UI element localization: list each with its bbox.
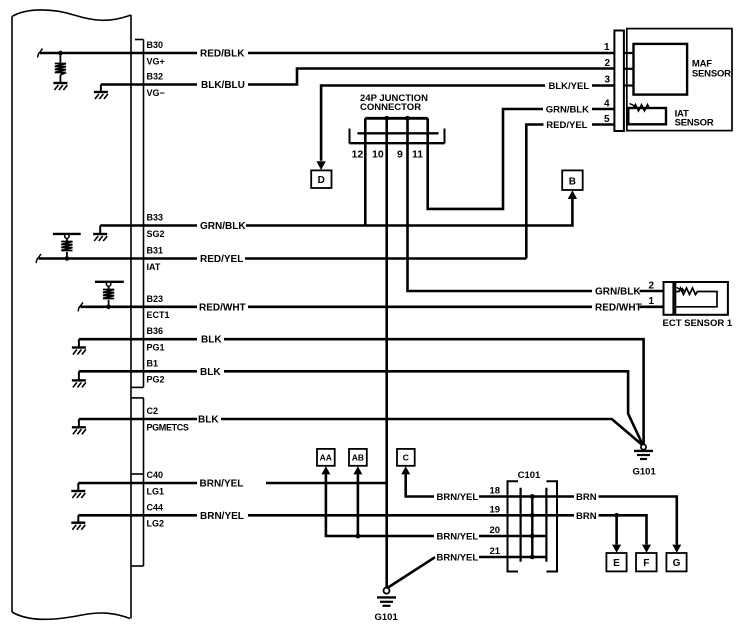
svg-text:PG2: PG2 — [147, 375, 165, 385]
svg-text:LG2: LG2 — [147, 519, 165, 529]
svg-text:RED/YEL: RED/YEL — [200, 254, 243, 265]
svg-text:CONNECTOR: CONNECTOR — [360, 102, 421, 113]
svg-text:RED/BLK: RED/BLK — [200, 49, 245, 60]
svg-text:C2: C2 — [147, 406, 159, 416]
svg-text:SENSOR: SENSOR — [692, 68, 731, 79]
svg-text:18: 18 — [490, 486, 501, 497]
svg-text:10: 10 — [372, 148, 384, 160]
svg-text:BLK/BLU: BLK/BLU — [201, 80, 245, 91]
svg-text:G: G — [673, 558, 681, 569]
svg-text:AA: AA — [320, 453, 332, 463]
svg-text:BRN/YEL: BRN/YEL — [437, 492, 479, 503]
svg-text:E: E — [613, 558, 620, 569]
svg-text:BLK: BLK — [201, 335, 222, 346]
svg-text:B30: B30 — [147, 40, 164, 50]
svg-text:SENSOR: SENSOR — [675, 117, 714, 128]
svg-text:3: 3 — [605, 75, 611, 86]
svg-text:B33: B33 — [147, 213, 164, 223]
svg-text:SG2: SG2 — [147, 229, 165, 239]
svg-text:19: 19 — [490, 505, 501, 516]
svg-text:G101: G101 — [375, 612, 399, 623]
svg-text:BLK: BLK — [198, 415, 219, 426]
svg-text:BLK: BLK — [200, 367, 221, 378]
svg-text:BLK/YEL: BLK/YEL — [549, 81, 590, 92]
svg-text:B1: B1 — [147, 358, 159, 368]
svg-text:GRN/BLK: GRN/BLK — [595, 287, 641, 298]
svg-text:D: D — [318, 175, 325, 186]
svg-text:G101: G101 — [633, 467, 657, 478]
svg-text:C101: C101 — [518, 470, 541, 481]
svg-text:2: 2 — [605, 58, 611, 69]
svg-text:GRN/BLK: GRN/BLK — [200, 221, 246, 232]
svg-text:IAT: IAT — [147, 262, 161, 272]
svg-text:9: 9 — [397, 148, 403, 160]
svg-text:1: 1 — [649, 296, 655, 307]
svg-text:BRN/YEL: BRN/YEL — [200, 479, 244, 490]
svg-text:F: F — [643, 558, 649, 569]
svg-text:BRN/YEL: BRN/YEL — [437, 553, 479, 564]
svg-text:C: C — [403, 453, 409, 463]
svg-text:PGMETCS: PGMETCS — [147, 422, 189, 432]
svg-text:B31: B31 — [147, 246, 164, 256]
svg-text:B36: B36 — [147, 326, 164, 336]
svg-text:BRN: BRN — [576, 492, 597, 503]
svg-text:B: B — [569, 177, 576, 188]
svg-text:GRN/BLK: GRN/BLK — [546, 104, 589, 115]
svg-text:PG1: PG1 — [147, 343, 165, 353]
svg-text:20: 20 — [490, 525, 501, 536]
svg-text:4: 4 — [604, 99, 610, 110]
svg-text:RED/YEL: RED/YEL — [546, 120, 587, 131]
svg-text:11: 11 — [412, 148, 423, 160]
svg-text:21: 21 — [490, 546, 501, 557]
svg-text:VG−: VG− — [147, 88, 165, 98]
svg-text:1: 1 — [604, 42, 610, 53]
svg-text:LG1: LG1 — [147, 486, 165, 496]
svg-text:B23: B23 — [147, 294, 164, 304]
svg-text:C44: C44 — [147, 502, 164, 512]
svg-text:RED/WHT: RED/WHT — [199, 302, 246, 313]
svg-text:RED/WHT: RED/WHT — [595, 302, 642, 313]
svg-text:BRN/YEL: BRN/YEL — [200, 511, 244, 522]
svg-text:5: 5 — [604, 114, 610, 125]
svg-text:BRN: BRN — [576, 511, 597, 522]
svg-text:2: 2 — [649, 280, 655, 291]
svg-text:ECT SENSOR 1: ECT SENSOR 1 — [663, 318, 733, 329]
svg-text:AB: AB — [352, 453, 364, 463]
svg-text:12: 12 — [352, 148, 364, 160]
svg-text:ECT1: ECT1 — [147, 310, 170, 320]
svg-text:BRN/YEL: BRN/YEL — [437, 532, 479, 543]
svg-text:VG+: VG+ — [147, 56, 165, 66]
svg-text:B32: B32 — [147, 72, 164, 82]
svg-text:C40: C40 — [147, 470, 164, 480]
